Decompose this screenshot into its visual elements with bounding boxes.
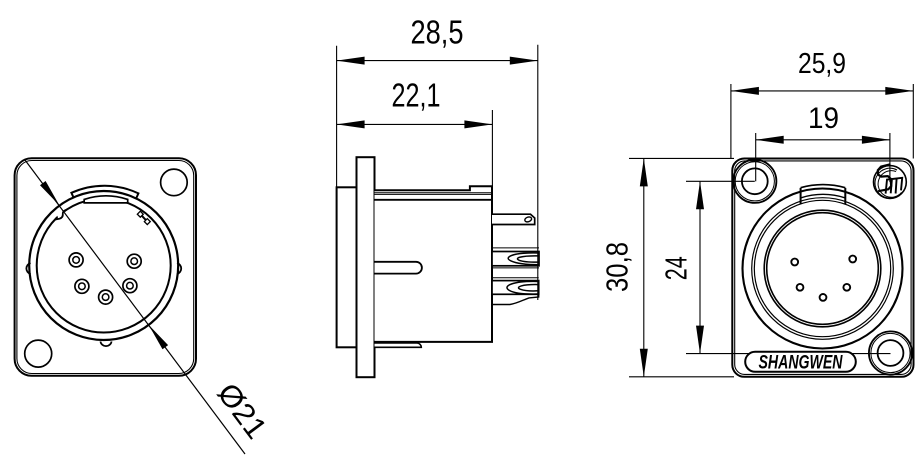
pin 5 solder cup bottom-center (left view): [99, 290, 113, 304]
pin 3 solder cup mid-left (left view): [75, 279, 89, 293]
insert circle outer line (right view): [764, 210, 881, 327]
contact hole 2 upper-right (right view): [849, 256, 856, 263]
dim 24 arrow top: [696, 181, 704, 209]
dim 30,8 extension line bottom: [629, 376, 734, 378]
latch tongue tab (left view): [84, 196, 128, 203]
flange plate (side view): [357, 157, 375, 377]
screw hole bottom-right outer double (right view): [871, 333, 910, 372]
screw hole top-left outer (right view): [733, 160, 776, 203]
dim 28,5 arrow right: [510, 57, 538, 65]
flange outer outline (right view): [732, 159, 913, 377]
svg-text:28,5: 28,5: [411, 14, 464, 51]
pin 4 solder cup mid-right (left view): [123, 279, 137, 293]
inner shell ring (left view): [37, 199, 171, 333]
main body (side view): [375, 186, 493, 342]
terminal 2 cup curve inner (side view): [517, 256, 539, 262]
svg-text:19: 19: [808, 102, 839, 135]
terminal 2 lower line (side view): [492, 267, 539, 269]
svg-text:22,1: 22,1: [392, 77, 441, 114]
ring circle inner line (right view): [754, 200, 890, 336]
mounting hole top-right (left view): [161, 169, 188, 196]
terminal 1 top solder lug (side view): [492, 214, 535, 224]
svg-text:24: 24: [660, 256, 694, 280]
keyway notch (left view): [57, 211, 66, 220]
contact hole 1 upper-left (right view): [791, 259, 798, 266]
dim 30,8 arrow bottom: [640, 349, 648, 377]
barrel outer circle (left view): [29, 191, 178, 340]
latch bump arc (left view): [71, 186, 138, 198]
terminal 3 cup curve outer (side view): [507, 281, 539, 294]
dim 22,1 dimension line: [337, 123, 493, 125]
latch tab mid arc (right view): [801, 194, 846, 197]
terminal 3 upper line (side view): [492, 277, 539, 279]
dim 25,9 dimension line: [731, 90, 913, 92]
rear shell rectangle (side view): [337, 187, 357, 347]
diameter dimension leader line: [25, 160, 245, 454]
body seam line 2 (side view): [375, 193, 493, 195]
screw hole bottom-right outer (right view): [869, 331, 912, 374]
screw hole bottom-right inner (right view): [878, 340, 904, 366]
dim 24 extension line top: [686, 180, 755, 182]
dim 25,9 extension line right: [912, 84, 914, 159]
boss outer circle (right view): [743, 189, 903, 349]
dim 24 extension line bottom (passes under SHANGWEN pill): [686, 353, 891, 355]
contact hole 5 bottom-center (right view): [820, 294, 827, 301]
logo S stroke: [878, 164, 891, 191]
body seam line 3 (side view): [375, 199, 493, 201]
contact hole 4 mid-right (right view): [843, 284, 850, 291]
dim 30,8 dimension line: [643, 158, 645, 376]
terminal 3 bent tail (side view): [492, 294, 539, 305]
latch tab top arc (right view): [801, 185, 846, 188]
logo m stroke: [886, 178, 903, 194]
dim 19 dimension line: [756, 139, 890, 141]
terminal 2 upper line (side view): [492, 247, 539, 249]
rivet detail (left view): [137, 211, 150, 224]
side rib bump left (left view): [26, 263, 30, 274]
middle rib bar (side view): [375, 262, 422, 274]
diameter arrow upper: [40, 181, 60, 206]
terminal 2 body (side view): [492, 252, 539, 266]
flange inner contour line (left view): [17, 161, 194, 374]
dim 25,9 arrow left: [731, 87, 759, 95]
dim 28,5 extension line right: [537, 45, 539, 300]
dim 28,5 arrow left: [337, 57, 365, 65]
screw hole top-left outer double (right view): [735, 162, 774, 201]
ring circle outer line (right view): [752, 198, 894, 340]
dim 30,8 extension line top: [629, 157, 734, 159]
svg-text:30,8: 30,8: [601, 242, 635, 292]
pin 2 solder cup upper-right (left view): [127, 254, 141, 268]
side rib bump right (left view): [177, 263, 181, 274]
flange inner contour line (right view): [735, 161, 911, 375]
dim 19 extension line left: [755, 133, 757, 181]
latch tab right edge (right view): [844, 188, 846, 204]
terminal 3 cup curve inner (side view): [519, 285, 539, 291]
dim 25,9 arrow right: [885, 87, 913, 95]
insert circle inner line (right view): [767, 213, 879, 325]
dim 28,5 extension line left: [336, 46, 338, 188]
dim 24 dimension line: [699, 181, 701, 353]
pin 1 solder cup upper-left (left view): [69, 253, 83, 267]
logo circle with Sm monogram (right view): [874, 164, 907, 198]
dim 19 arrow left: [756, 136, 784, 144]
dim 24 arrow bottom: [696, 326, 704, 354]
dim 22,1 extension line right: [491, 110, 493, 190]
dim 19 extension line right (through logo): [889, 133, 891, 182]
svg-text:SHANGWEN: SHANGWEN: [759, 352, 844, 373]
screw hole top-left inner (right view): [742, 168, 768, 194]
dim 28,5 dimension line: [337, 60, 538, 62]
flange outer outline (left view): [15, 158, 196, 376]
body seam line 1 (side view): [375, 192, 493, 194]
latch tab left edge (right view): [800, 188, 802, 204]
dim 19 arrow right: [862, 136, 890, 144]
bottom rib bump (left view): [100, 342, 111, 347]
bottom rib tab (side view): [375, 343, 422, 347]
dim 30,8 arrow top: [640, 158, 648, 186]
SHANGWEN pill (right view): [745, 352, 856, 372]
dim 22,1 arrow right: [464, 120, 492, 128]
contact hole 3 mid-left (right view): [797, 284, 804, 291]
terminal 3 body (side view): [492, 281, 539, 295]
svg-text:25,9: 25,9: [798, 48, 846, 80]
dim 25,9 extension line left: [730, 84, 732, 159]
diameter arrow lower: [149, 325, 169, 350]
dim 22,1 arrow left: [337, 120, 365, 128]
mounting hole bottom-left (left view): [25, 340, 52, 367]
terminal 2 cup curve outer (side view): [508, 253, 539, 265]
terminal 1 hole (side view): [524, 216, 532, 223]
